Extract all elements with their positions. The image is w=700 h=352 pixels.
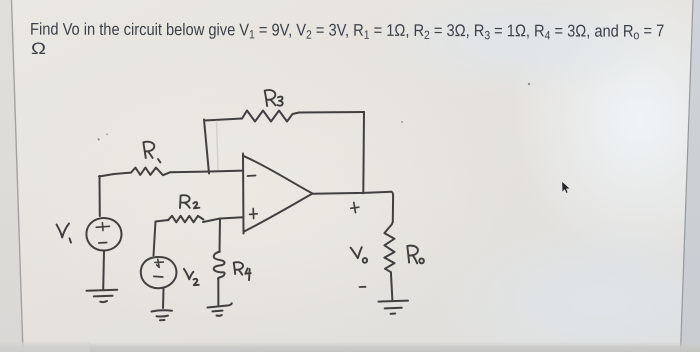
header text line 2	[31, 38, 46, 57]
wire V1 top vertical	[99, 176, 101, 216]
label V2	[184, 269, 194, 280]
resistor Ro	[384, 222, 394, 272]
wire plus node down to R4	[219, 219, 222, 253]
V1 minus sign	[99, 242, 107, 245]
wire R4 to ground	[217, 279, 219, 305]
bottom strip	[0, 342, 700, 352]
plus sign output node	[351, 203, 359, 213]
left edge line	[12, 0, 24, 352]
resistor R3	[242, 111, 299, 122]
label R2	[180, 195, 190, 208]
wire R3 to right corner	[299, 111, 364, 114]
source V1 circle	[86, 218, 121, 250]
wire output corner down to Ro	[391, 192, 393, 222]
ground V2	[152, 310, 173, 320]
op-amp plus sign	[250, 209, 258, 219]
wire Ro to ground	[391, 272, 393, 300]
ground V1	[87, 290, 118, 302]
specks	[98, 138, 100, 140]
label R1	[143, 142, 154, 158]
wire top to R3	[205, 119, 243, 121]
wire V1 to R1	[99, 173, 131, 177]
ground R4	[208, 303, 232, 316]
label Vo	[351, 247, 362, 258]
label Ro	[407, 246, 418, 264]
resistor R1	[131, 168, 170, 176]
circuit group	[86, 111, 408, 321]
left margin strip	[0, 0, 23, 352]
V2 plus sign	[155, 259, 164, 267]
wire V1 to ground	[102, 251, 105, 290]
op-amp minus sign	[248, 175, 256, 178]
ground Ro	[379, 301, 409, 314]
V1 plus sign	[96, 223, 109, 231]
resistor R4	[214, 252, 225, 280]
minus sign below Vo	[360, 286, 366, 288]
V2 minus sign	[154, 275, 163, 278]
wire R2 left horizontal	[156, 220, 169, 222]
source V2 circle	[141, 257, 177, 288]
header text line 1	[30, 20, 665, 43]
resistor R2	[168, 216, 203, 223]
wire R1 to op-amp minus input	[170, 171, 243, 173]
label R4	[234, 262, 243, 274]
wire R2 left corner to V2	[154, 222, 156, 256]
handwritten labels	[57, 90, 424, 285]
wire V2 to ground	[162, 289, 165, 308]
right margin strip	[681, 0, 700, 352]
op-amp U1 triangle	[243, 154, 313, 234]
wire feedback right vertical	[362, 112, 365, 193]
svg-text:Ω: Ω	[31, 38, 46, 57]
wire feedback left vertical	[204, 120, 209, 174]
faint pencil smudge	[217, 120, 219, 170]
label R3	[265, 90, 276, 106]
wire op-amp output	[313, 192, 392, 194]
mouse cursor	[562, 181, 570, 193]
label V1	[57, 224, 70, 238]
right edge line	[681, 0, 694, 352]
wire R2 to op-amp plus input	[203, 217, 243, 222]
